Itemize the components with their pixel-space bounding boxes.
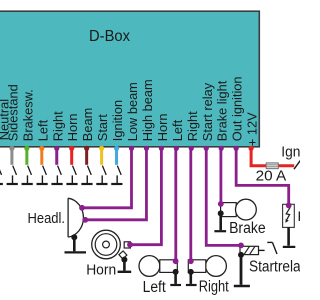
svg-text:Start relay: Start relay — [200, 82, 215, 141]
wire Low beam to headlight — [82, 147, 132, 208]
pin 1 Neutral — [0, 99, 11, 184]
flasher ground — [283, 227, 296, 247]
svg-text:Horn: Horn — [155, 113, 170, 141]
svg-text:Right: Right — [199, 278, 230, 295]
start relay coil — [240, 246, 259, 254]
svg-text:Startrelais: Startrelais — [249, 259, 300, 276]
pin 13 Left — [170, 119, 185, 150]
svg-text:Brake light: Brake light — [215, 80, 230, 141]
flasher unit — [283, 204, 295, 227]
svg-text:D-Box: D-Box — [89, 28, 130, 45]
pin 12 Horn — [155, 113, 170, 150]
svg-text:Start: Start — [95, 114, 110, 141]
ignition lock switch arm — [294, 160, 301, 169]
pin 9 Ignition — [110, 100, 125, 184]
left lamp ground — [170, 269, 181, 285]
horn symbol — [92, 230, 131, 259]
wire Left pin to left indicator lamp — [174, 147, 177, 261]
right lamp ground — [186, 269, 197, 285]
svg-text:Left: Left — [170, 119, 185, 141]
node flasher feed — [286, 203, 292, 209]
pin 15 Start relay — [200, 82, 215, 151]
brake lamp — [221, 199, 257, 220]
svg-text:Brakesw.: Brakesw. — [20, 89, 35, 141]
wire Out ignition to flasher unit — [236, 147, 289, 205]
node low beam on headlight — [79, 205, 85, 211]
svg-text:Right: Right — [50, 111, 65, 141]
node relay coil feed — [238, 243, 244, 249]
wire Brake light pin to brake lamp — [219, 147, 222, 204]
right indicator lamp — [188, 256, 226, 277]
svg-text:Horn: Horn — [86, 261, 116, 278]
svg-text:Left: Left — [35, 119, 50, 141]
headlight symbol — [68, 198, 83, 237]
node right lamp feed — [188, 258, 194, 264]
svg-text:+ 12V: + 12V — [245, 112, 260, 146]
node left lamp feed — [173, 258, 179, 264]
wire +12V to fuse and ignition lock — [251, 147, 294, 166]
left indicator lamp — [139, 256, 177, 277]
node high beam on headlight — [82, 217, 88, 223]
wire Right pin to right indicator lamp — [189, 147, 192, 261]
wire High beam to headlight — [85, 147, 146, 220]
svg-text:Low beam: Low beam — [125, 82, 140, 141]
relay contact — [259, 242, 277, 254]
pin 10 Low beam — [125, 82, 140, 151]
pin 7 Beam — [80, 108, 95, 184]
horn ground — [118, 257, 132, 272]
svg-text:Brake: Brake — [229, 220, 266, 237]
node horn feed — [127, 242, 133, 248]
pin 17 Out ignition — [230, 76, 245, 150]
svg-text:Out ignition: Out ignition — [230, 76, 245, 141]
svg-text:Beam: Beam — [80, 108, 95, 141]
pin 6 Horn — [65, 113, 80, 184]
relay ground — [234, 252, 250, 286]
pin 14 Right — [185, 111, 200, 151]
pin 11 High beam — [140, 79, 155, 151]
brake lamp ground — [214, 210, 226, 231]
pin 2 Sidestand — [5, 84, 20, 184]
svg-text:Ignition: Ignition — [110, 100, 125, 141]
pin 8 Start — [95, 114, 110, 184]
svg-text:Horn: Horn — [65, 113, 80, 141]
pin 3 Brakesw. — [20, 89, 35, 184]
pin 16 Brake light — [215, 80, 230, 151]
D-Box controller box — [0, 11, 259, 147]
svg-text:Right: Right — [185, 111, 200, 141]
svg-text:Ign.: Ign. — [281, 143, 300, 160]
headlight ground — [65, 234, 87, 252]
svg-text:20 A: 20 A — [256, 167, 287, 184]
svg-text:High beam: High beam — [140, 79, 155, 141]
wire Start relay pin to relay coil — [206, 147, 241, 245]
pin 18 + 12V — [245, 112, 260, 151]
pin 4 Left — [35, 119, 50, 184]
svg-text:Sidestand: Sidestand — [5, 84, 20, 141]
svg-text:Left: Left — [143, 279, 167, 296]
fuse 20 A — [266, 163, 278, 169]
svg-text:Headl.: Headl. — [28, 211, 66, 227]
node brake lamp feed — [218, 201, 224, 207]
pin 5 Right — [50, 111, 65, 184]
wire Horn pin to horn — [130, 147, 161, 245]
svg-text:Fl.: Fl. — [298, 208, 301, 224]
